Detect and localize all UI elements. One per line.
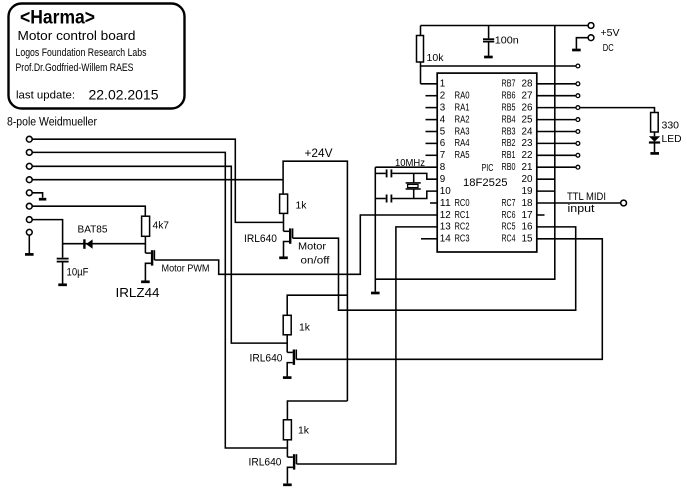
svg-text:13: 13 xyxy=(440,222,452,233)
label Motor PWM xyxy=(162,263,210,275)
label U1 18F2525 xyxy=(463,177,508,189)
U1 right pin names and numbers xyxy=(502,79,534,245)
wire U1 pin23 RB2 xyxy=(537,142,576,144)
U1 pin 6 stub xyxy=(426,142,438,144)
ground C2 xyxy=(58,283,67,286)
wire J1 pin7 to C2 and D1 xyxy=(32,220,62,258)
transistor Q1 IRLZ44 xyxy=(145,250,154,280)
wire Q3 drain to U1 pin15 RC4 xyxy=(296,239,602,359)
test point RB5 xyxy=(576,106,580,110)
title text Prof.Dr.Godfried-Willem RAES xyxy=(16,62,134,74)
wire MCLR test point xyxy=(421,65,576,67)
svg-text:18F2525: 18F2525 xyxy=(463,177,508,189)
svg-text:9: 9 xyxy=(440,174,445,185)
svg-text:RC3: RC3 xyxy=(455,234,470,245)
connector J1 pin 8 xyxy=(26,229,32,235)
svg-text:RC6: RC6 xyxy=(502,210,516,221)
wire +24V to R4 xyxy=(287,295,347,315)
wire U1 pin26 RB5 xyxy=(537,107,576,109)
svg-text:7: 7 xyxy=(440,150,445,161)
svg-text:10: 10 xyxy=(440,186,452,197)
svg-text:10µF: 10µF xyxy=(67,267,89,279)
U1 pin 11 stub xyxy=(430,202,437,204)
connector TTL MIDI input xyxy=(621,200,627,206)
svg-text:2: 2 xyxy=(440,91,445,102)
label X1 10MHz xyxy=(395,158,425,169)
svg-text:1: 1 xyxy=(440,79,445,90)
LED D2 xyxy=(649,132,660,152)
svg-text:RA2: RA2 xyxy=(455,114,470,125)
label Q1 IRLZ44 xyxy=(116,285,160,300)
svg-text:+5V: +5V xyxy=(601,27,620,39)
wire J1 pin5 to ground xyxy=(32,193,42,198)
U1 left pin numbers and names xyxy=(440,79,470,245)
svg-text:11: 11 xyxy=(440,198,451,209)
svg-text:26: 26 xyxy=(522,102,534,113)
svg-text:Motor: Motor xyxy=(298,241,327,253)
ground at J1 pin5 xyxy=(39,198,46,201)
svg-text:RB6: RB6 xyxy=(502,91,516,102)
wire J1 pin2 to Q4 gate node xyxy=(32,152,287,448)
label R5 1k xyxy=(298,425,310,437)
svg-text:RB4: RB4 xyxy=(502,114,516,125)
IC U1 PIC18F2525 box xyxy=(437,73,537,252)
svg-text:24: 24 xyxy=(522,126,534,137)
label C1 100n xyxy=(495,35,519,47)
wire Q2 drain to U1 pin16 RC5 xyxy=(293,227,576,310)
svg-text:25: 25 xyxy=(522,114,534,125)
label input xyxy=(568,203,595,215)
diode D1 BAT85 xyxy=(63,239,146,249)
wire U1 pin19 Vss xyxy=(537,190,555,192)
label Q4 IRL640 xyxy=(249,457,282,469)
svg-text:RA4: RA4 xyxy=(455,138,470,149)
svg-text:28: 28 xyxy=(522,79,534,90)
svg-text:1k: 1k xyxy=(296,200,308,212)
svg-text:Logos Foundation Research Labs: Logos Foundation Research Labs xyxy=(16,47,147,59)
svg-text:RC1: RC1 xyxy=(455,210,470,221)
U1 pin 4 stub xyxy=(426,119,438,121)
svg-text:RC4: RC4 xyxy=(502,234,516,245)
label C2 10uF xyxy=(67,267,89,279)
svg-text:21: 21 xyxy=(522,162,533,173)
connector +5V DC xyxy=(576,23,593,49)
test point RB1 xyxy=(576,153,580,157)
svg-text:15: 15 xyxy=(522,234,534,245)
wire U1 pin27 RB6 xyxy=(537,95,576,97)
connector J1 pin 1 xyxy=(26,136,32,142)
svg-text:RC7: RC7 xyxy=(502,198,516,209)
label U1 PIC xyxy=(482,163,494,174)
svg-text:12: 12 xyxy=(440,210,451,221)
svg-text:PIC: PIC xyxy=(482,163,494,174)
wire J1 pin1 to Q2 gate node xyxy=(32,139,283,222)
svg-text:1k: 1k xyxy=(299,322,311,334)
svg-text:27: 27 xyxy=(522,91,533,102)
resistor R1 10k xyxy=(417,26,424,84)
svg-text:LED: LED xyxy=(662,133,682,145)
title text Harma xyxy=(20,7,95,29)
svg-text:8: 8 xyxy=(440,162,446,173)
capacitor C3 and wire to pin9 xyxy=(375,169,437,179)
wire J1 pin8 stub xyxy=(28,235,30,253)
label +5V xyxy=(601,27,620,39)
label TTL MIDI xyxy=(567,191,606,203)
test point RB2 xyxy=(576,142,580,146)
svg-text:Prof.Dr.Godfried-Willem RAES: Prof.Dr.Godfried-Willem RAES xyxy=(16,62,134,74)
connector J1 pin 5 xyxy=(26,190,32,196)
svg-text:IRL640: IRL640 xyxy=(244,233,277,245)
label R4 1k xyxy=(299,322,311,334)
test point RB0 xyxy=(576,165,580,169)
svg-text:19: 19 xyxy=(522,186,533,197)
label R3 1k xyxy=(296,200,308,212)
crystal X1 10MHz xyxy=(406,173,421,198)
svg-text:RA1: RA1 xyxy=(455,102,470,113)
connector J1 pin 6 xyxy=(26,203,32,209)
connector J1 label 8-pole Weidmueller xyxy=(7,117,97,129)
wire J1 pin6 to R2 xyxy=(32,206,145,216)
label Q2 IRL640 xyxy=(244,233,277,245)
label Motor on/off xyxy=(298,241,330,267)
title text date 22.02.2015 xyxy=(89,87,159,103)
wire R5 to Q4 gate xyxy=(286,440,288,457)
wire R3 to Q2 gate xyxy=(283,213,285,231)
svg-text:Motor control board: Motor control board xyxy=(18,28,136,43)
connector J1 pin 2 xyxy=(26,150,32,156)
label R1 10k xyxy=(427,52,445,64)
svg-text:+24V: +24V xyxy=(305,148,333,160)
svg-text:RA3: RA3 xyxy=(455,126,470,137)
svg-text:RC2: RC2 xyxy=(455,222,470,233)
capacitor C1 100n xyxy=(483,26,494,56)
wire U1 pin18 RC7 TTL MIDI xyxy=(537,202,621,204)
svg-text:20: 20 xyxy=(522,174,534,185)
U1 pin 7 stub xyxy=(426,154,438,156)
svg-text:RC5: RC5 xyxy=(502,222,516,233)
svg-text:IRLZ44: IRLZ44 xyxy=(116,285,160,300)
svg-text:RB7: RB7 xyxy=(502,79,516,90)
title block box xyxy=(9,4,185,109)
ground Q4 xyxy=(283,483,292,486)
svg-text:14: 14 xyxy=(440,234,452,245)
svg-text:RB3: RB3 xyxy=(502,126,516,137)
svg-text:RB5: RB5 xyxy=(502,102,516,113)
capacitor C4 and wire to pin10 xyxy=(375,191,437,202)
wire U1 pin28 RB7 xyxy=(537,83,576,85)
wire R2 to Q1 gate xyxy=(144,236,146,253)
svg-text:DC: DC xyxy=(603,42,614,54)
svg-text:4k7: 4k7 xyxy=(153,220,170,232)
svg-text:RA0: RA0 xyxy=(455,91,470,102)
U1 pin 5 stub xyxy=(426,131,438,133)
wire +24V to R5 xyxy=(287,401,347,420)
title text last update xyxy=(16,90,75,102)
svg-text:RA5: RA5 xyxy=(455,150,470,161)
svg-text:4: 4 xyxy=(440,114,446,125)
svg-text:<Harma>: <Harma> xyxy=(20,7,95,29)
connector J1 pin 7 xyxy=(26,217,32,223)
svg-text:input: input xyxy=(568,203,595,215)
wire R4 to Q3 gate xyxy=(286,335,288,353)
svg-text:1k: 1k xyxy=(298,425,310,437)
ground at +5V DC xyxy=(572,49,581,52)
svg-text:RB2: RB2 xyxy=(502,138,516,149)
title text Logos Foundation Research Labs xyxy=(16,47,147,59)
label R2 4k7 xyxy=(153,220,170,232)
wire U1 pin21 RB0 xyxy=(537,166,576,168)
svg-text:6: 6 xyxy=(440,138,446,149)
crystal ground rail xyxy=(374,167,376,292)
ground at J1 pin8 xyxy=(25,253,34,256)
ground LED xyxy=(650,152,659,155)
wire +24V rail xyxy=(283,161,347,401)
svg-text:16: 16 xyxy=(522,222,534,233)
wire J1 pin4 +24V feed xyxy=(32,179,283,181)
svg-text:330: 330 xyxy=(662,119,680,131)
svg-text:5: 5 xyxy=(440,126,446,137)
wire U1 pin25 RB4 xyxy=(537,119,576,121)
svg-text:IRL640: IRL640 xyxy=(250,353,283,365)
U1 pin 17 stub xyxy=(537,214,545,216)
wire J1 pin3 to Q3 gate node xyxy=(32,166,287,343)
svg-text:17: 17 xyxy=(522,210,533,221)
resistor R4 1k xyxy=(283,315,291,335)
svg-text:22.02.2015: 22.02.2015 xyxy=(89,87,159,103)
svg-text:8-pole Weidmueller: 8-pole Weidmueller xyxy=(7,117,97,129)
test point circle MCLR xyxy=(576,64,580,68)
test point RB3 xyxy=(576,130,580,134)
connector J1 pin 4 xyxy=(26,177,32,183)
svg-text:Motor PWM: Motor PWM xyxy=(162,263,210,275)
wire Motor PWM to U1 pin12 RC1 xyxy=(154,215,437,274)
label Q3 IRL640 xyxy=(250,353,283,365)
test point RB6 xyxy=(576,94,580,98)
label +24V xyxy=(305,148,333,160)
svg-text:RC0: RC0 xyxy=(455,198,470,209)
svg-text:10k: 10k xyxy=(427,52,445,64)
U1 pin 2 stub xyxy=(426,95,438,97)
ground Q3 xyxy=(283,376,292,379)
svg-text:3: 3 xyxy=(440,102,446,113)
resistor R6 330 xyxy=(651,113,659,133)
resistor R3 1k xyxy=(280,194,288,213)
svg-text:10MHz: 10MHz xyxy=(395,158,425,169)
svg-text:IRL640: IRL640 xyxy=(249,457,282,469)
wire U1 pin22 RB1 xyxy=(537,154,576,156)
svg-text:on/off: on/off xyxy=(301,255,330,267)
transistor Q3 IRL640 xyxy=(287,350,296,377)
svg-text:100n: 100n xyxy=(495,35,519,47)
label LED xyxy=(662,133,682,145)
ground C1 xyxy=(484,56,493,59)
ground Q1 xyxy=(141,280,150,283)
wire U1 pin20 Vdd xyxy=(537,178,555,180)
wire R1 to U1 pin1 MCLR xyxy=(421,83,438,85)
wire Q4 drain to U1 pin13 RC2 xyxy=(297,227,438,464)
test point RB7 xyxy=(576,82,580,86)
U1 pin 14 stub xyxy=(421,238,437,240)
label D1 BAT85 xyxy=(78,224,108,236)
wire +5V top rail xyxy=(421,25,589,27)
svg-text:TTL MIDI: TTL MIDI xyxy=(567,191,606,203)
label DC xyxy=(603,42,614,54)
svg-text:23: 23 xyxy=(522,138,534,149)
transistor Q2 IRL640 xyxy=(284,228,293,256)
ground Q2 xyxy=(279,256,288,259)
svg-text:RB0: RB0 xyxy=(502,162,516,173)
resistor R2 4k7 xyxy=(142,216,150,236)
wire U1 pin24 RB3 xyxy=(537,131,576,133)
ground crystal rail xyxy=(371,292,380,295)
wire U1 pin8 Vss to crystal rail xyxy=(375,166,437,168)
svg-text:18: 18 xyxy=(522,198,534,209)
transistor Q4 IRL640 xyxy=(287,454,296,483)
svg-text:22: 22 xyxy=(522,150,533,161)
U1 pin 3 stub xyxy=(426,107,438,109)
test point RB4 xyxy=(576,118,580,122)
connector J1 pin 3 xyxy=(26,163,32,169)
svg-text:BAT85: BAT85 xyxy=(78,224,108,236)
svg-text:last update:: last update: xyxy=(16,90,75,102)
label R6 330 xyxy=(662,119,680,131)
capacitor C2 10uF xyxy=(57,259,69,284)
svg-text:RB1: RB1 xyxy=(502,150,516,161)
wire RB5 to R6 LED xyxy=(580,108,654,113)
title text Motor control board xyxy=(18,28,136,43)
resistor R5 1k xyxy=(283,420,291,440)
power rail +5V vertical and Vss return xyxy=(375,26,555,280)
